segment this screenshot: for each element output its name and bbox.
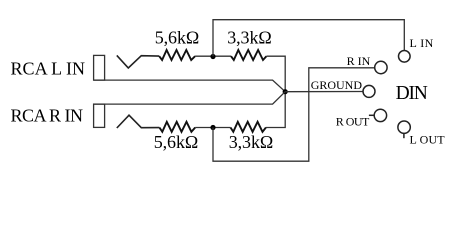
wire: node A up to top rail xyxy=(213,20,404,57)
node A junction dot xyxy=(210,54,215,59)
wire: node B down and around to R IN pin xyxy=(213,68,375,161)
DIN pin R OUT circle xyxy=(374,109,386,121)
RCA jack J1 tip contact xyxy=(117,55,159,68)
svg-text:RCA R IN: RCA R IN xyxy=(11,106,84,126)
DIN pin L OUT circle xyxy=(398,121,410,133)
wire: bottom ground line from J2 shell xyxy=(94,92,286,104)
DIN pin R IN circle xyxy=(375,61,387,73)
DIN pin R OUT lead tick xyxy=(369,114,374,116)
svg-text:R OUT: R OUT xyxy=(336,115,370,129)
resistor 3,3k top xyxy=(231,50,266,60)
DIN pin L IN circle xyxy=(399,51,411,63)
RCA jack J1 body (L) xyxy=(94,55,105,80)
svg-text:3,3kΩ: 3,3kΩ xyxy=(229,132,274,152)
svg-text:GROUND: GROUND xyxy=(311,78,363,92)
svg-text:5,6kΩ: 5,6kΩ xyxy=(154,132,199,152)
wire: ground node to GROUND pin xyxy=(285,91,363,93)
resistor 5,6k top xyxy=(159,50,195,60)
resistor 3,3k bottom xyxy=(231,122,266,132)
svg-text:R IN: R IN xyxy=(347,54,371,68)
wire: top ground line from J1 shell xyxy=(94,80,286,92)
DIN pin L OUT lead tick xyxy=(403,133,405,138)
svg-text:L IN: L IN xyxy=(410,36,434,50)
svg-text:5,6kΩ: 5,6kΩ xyxy=(155,28,200,48)
RCA jack J2 tip contact xyxy=(117,115,160,128)
svg-text:3,3kΩ: 3,3kΩ xyxy=(227,28,272,48)
svg-text:RCA L IN: RCA L IN xyxy=(11,59,86,79)
ground node junction dot xyxy=(283,89,288,94)
node B junction dot xyxy=(210,125,215,130)
DIN pin GROUND circle xyxy=(363,85,375,97)
wire: top 3,3k to ground bus xyxy=(266,56,285,127)
resistor 5,6k bottom xyxy=(159,122,195,132)
svg-text:L OUT: L OUT xyxy=(410,132,446,146)
svg-text:DIN: DIN xyxy=(396,83,428,104)
RCA jack J2 body (R) xyxy=(94,104,105,127)
wire: node A segment xyxy=(195,55,231,57)
wire: node B segment xyxy=(195,127,230,129)
